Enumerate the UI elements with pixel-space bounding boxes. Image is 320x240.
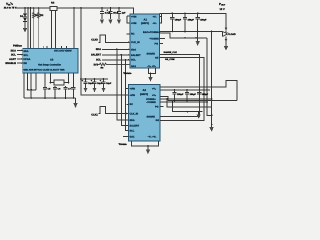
wire RC stub A1 bbox=[126, 33, 130, 35]
capacitor C5 bbox=[43, 73, 51, 98]
wire sense stair C bbox=[167, 99, 212, 107]
op-amp A3 hot swap controller block bbox=[23, 48, 78, 73]
svg-text:EN: EN bbox=[23, 62, 27, 65]
svg-text:Hot Swap Controller: Hot Swap Controller bbox=[38, 63, 61, 66]
capacitor C3 bbox=[117, 8, 126, 19]
node dot A2 vosns- join bbox=[206, 101, 208, 103]
capacitor C10 polarized bbox=[91, 78, 103, 88]
ground drop stair D bbox=[197, 112, 201, 119]
svg-text:SHARE: SHARE bbox=[147, 115, 156, 118]
resistor RS sense bbox=[50, 2, 57, 11]
wire source pin drop bbox=[30, 8, 32, 48]
ground drop return bus bbox=[196, 32, 200, 47]
svg-text:150μF: 150μF bbox=[175, 18, 182, 21]
svg-text:CLK0: CLK0 bbox=[91, 38, 98, 41]
capacitor COUT6 bbox=[197, 90, 209, 101]
node SCL left bbox=[11, 54, 23, 57]
node dot SCL drop bbox=[125, 59, 127, 61]
wire SALERT bus to A1 bbox=[91, 54, 130, 57]
svg-text:150μF: 150μF bbox=[190, 93, 197, 96]
wire sense+ leg bbox=[51, 11, 53, 49]
capacitor COUT2 bbox=[183, 13, 195, 31]
svg-text:GS: GS bbox=[155, 56, 159, 59]
svg-text:GS_COM: GS_COM bbox=[165, 58, 175, 61]
svg-text:+VIN: +VIN bbox=[130, 94, 136, 97]
svg-text:−V₀ +V₀: −V₀ +V₀ bbox=[147, 65, 156, 68]
wire PG stub A1 bbox=[160, 43, 164, 45]
svg-text:A1: A1 bbox=[144, 19, 148, 22]
svg-text:+V₀: +V₀ bbox=[152, 94, 156, 97]
svg-text:HPGA: HPGA bbox=[23, 58, 30, 61]
wire tie bottom stubs bbox=[28, 89, 36, 91]
svg-text:150μF: 150μF bbox=[202, 93, 209, 96]
capacitor C6 bbox=[53, 86, 61, 98]
op-amp A1 regulator block bbox=[130, 14, 161, 68]
capacitor C8 bbox=[71, 73, 75, 98]
svg-text:RS: RS bbox=[51, 2, 55, 5]
node dots on input rail bbox=[24, 7, 120, 9]
wire return bus from A1 bbox=[160, 31, 162, 33]
svg-text:SALERT: SALERT bbox=[131, 54, 141, 57]
svg-text:SCL: SCL bbox=[96, 59, 101, 62]
ground below A2 bbox=[146, 150, 150, 155]
svg-text:CLK_IN: CLK_IN bbox=[131, 41, 140, 44]
capacitor COUT5 bbox=[185, 90, 197, 101]
svg-text:GA1: GA1 bbox=[131, 65, 137, 68]
svg-text:+VIN: +VIN bbox=[131, 22, 137, 25]
load arrow bbox=[222, 28, 236, 37]
ground below load bbox=[224, 46, 228, 51]
wire sense vertical 2 bbox=[207, 38, 212, 115]
node dot sense 1 top bbox=[211, 31, 213, 33]
svg-text:SDA: SDA bbox=[23, 50, 28, 53]
svg-text:150μF: 150μF bbox=[177, 93, 184, 96]
wire vin branch to A2 bbox=[81, 8, 129, 95]
node CLK1 pulse source bbox=[91, 106, 128, 116]
svg-text:PMBus: PMBus bbox=[13, 44, 22, 47]
svg-text:10μF: 10μF bbox=[106, 82, 112, 85]
svg-text:OV1 OV2 VDDW: OV1 OV2 VDDW bbox=[54, 49, 72, 52]
wire SCL vertical to A2 bbox=[126, 60, 129, 131]
wire gate pin drop bbox=[73, 8, 75, 48]
capacitor C2 polarized bbox=[107, 8, 119, 19]
node dot A2 vin upper stub bbox=[124, 89, 128, 96]
capacitor C7 bbox=[63, 86, 71, 98]
node dot A2 gnd bbox=[147, 145, 149, 147]
wire vout rail bbox=[162, 13, 227, 27]
crystal Y1 timer box bbox=[50, 73, 70, 85]
svg-text:30.4 to 75 V: 30.4 to 75 V bbox=[4, 7, 17, 10]
node dots A2 return bus bbox=[174, 100, 201, 102]
wire RC stub A2 bbox=[126, 103, 128, 105]
wire A2 output rail bbox=[160, 81, 237, 101]
capacitor C11 polarized bbox=[100, 78, 112, 88]
wire load return bbox=[225, 37, 228, 46]
node CLK0 pulse source bbox=[91, 35, 130, 43]
wire SCL bus to A1 bbox=[96, 59, 130, 62]
wire intvcc rail bbox=[81, 78, 108, 80]
ground arrow at bus end bbox=[73, 98, 77, 108]
ground below C1 bbox=[100, 20, 104, 25]
wire ground bus below A3 bbox=[24, 97, 76, 99]
svg-text:GS: GS bbox=[156, 119, 160, 122]
wire A3 bottom stub 4 bbox=[35, 73, 37, 90]
wire R2 lower lead bbox=[38, 19, 40, 49]
wire A1 output to vout rail bbox=[160, 13, 162, 22]
wire A2 return stub bbox=[160, 97, 168, 101]
ground below C10 bbox=[92, 88, 96, 93]
wire into load node bbox=[225, 31, 227, 34]
node ENABLE bbox=[5, 62, 22, 65]
ground below C3 bbox=[117, 20, 121, 25]
ground below C2 bbox=[108, 20, 112, 25]
node dots vout rail bbox=[171, 13, 198, 15]
wire R1 lower lead bbox=[33, 19, 35, 49]
svg-text:+V₀: +V₀ bbox=[153, 16, 157, 19]
node ALERT bbox=[9, 58, 23, 61]
node dot SDA drop bbox=[116, 49, 118, 51]
ground below C11 bbox=[101, 88, 105, 93]
svg-text:1μF: 1μF bbox=[122, 12, 127, 15]
op-amp A2 regulator block bbox=[129, 85, 161, 142]
svg-text:+VIN: +VIN bbox=[130, 87, 136, 90]
svg-text:(GRP1): (GRP1) bbox=[141, 22, 149, 25]
wire vosns- from A1 bbox=[160, 38, 166, 40]
capacitor COUT1 bbox=[170, 13, 182, 31]
wire A3 bottom stub 1 bbox=[23, 73, 25, 98]
svg-text:SALERT: SALERT bbox=[91, 54, 101, 57]
wire SDA bus to A1 bbox=[96, 48, 130, 51]
resistor R1 bbox=[33, 8, 40, 19]
svg-text:Tristate: Tristate bbox=[119, 143, 128, 146]
svg-text:+V₀: +V₀ bbox=[153, 22, 157, 25]
svg-text:150μF: 150μF bbox=[188, 18, 195, 21]
capacitor C1 bbox=[100, 8, 111, 19]
svg-text:+VIN: +VIN bbox=[131, 16, 137, 19]
node dots sense bottom bbox=[187, 111, 213, 126]
svg-text:SCL: SCL bbox=[11, 54, 17, 57]
wire vosns+ from A1 bbox=[160, 33, 208, 38]
node dot A2 vosns+ join bbox=[211, 98, 213, 100]
ground below sense nest bbox=[209, 125, 213, 133]
node dots stair joins bbox=[166, 98, 173, 103]
svg-text:+V₀: +V₀ bbox=[152, 87, 156, 90]
svg-text:SHARE_CLK: SHARE_CLK bbox=[164, 51, 178, 54]
wire load bottom bbox=[221, 32, 223, 37]
wire A3 bottom stub 3 bbox=[30, 73, 32, 98]
svg-text:SCL: SCL bbox=[23, 54, 28, 57]
wire GA1 stub A2 bbox=[123, 136, 129, 138]
wire A3 spare top pin ticks bbox=[44, 46, 67, 49]
svg-text:RC: RC bbox=[131, 33, 135, 36]
svg-text:−VOSNS: −VOSNS bbox=[146, 101, 156, 104]
wire A1 bottom gnd stubs bbox=[149, 68, 156, 77]
svg-text:(GRP2): (GRP2) bbox=[140, 93, 148, 96]
resistor R2 bbox=[38, 8, 45, 19]
node dots return bus bbox=[171, 31, 198, 33]
svg-text:12 V: 12 V bbox=[220, 8, 225, 11]
svg-text:ALRT: ALRT bbox=[9, 58, 16, 61]
ground below A1 bbox=[148, 77, 152, 82]
svg-text:−V₀ +V₀: −V₀ +V₀ bbox=[148, 135, 157, 138]
node dot SALERT drop bbox=[120, 54, 122, 56]
wire vdd pin drop bbox=[27, 8, 29, 48]
wire A2 return bus bbox=[168, 100, 237, 102]
ground below C9 bbox=[83, 88, 87, 93]
wire sense vertical 1 bbox=[211, 32, 213, 125]
svg-text:GA1: GA1 bbox=[130, 136, 136, 139]
svg-text:SDA: SDA bbox=[130, 119, 135, 122]
svg-text:Tristate: Tristate bbox=[123, 72, 132, 75]
diode D1 dual TVS bbox=[20, 8, 27, 21]
wire A2 bottom gnd stubs bbox=[132, 141, 159, 150]
svg-text:CLK_IN: CLK_IN bbox=[130, 112, 139, 115]
wire SDA vertical to A2 bbox=[117, 49, 129, 120]
wire share_clk chain bbox=[160, 54, 200, 116]
wire input rail bbox=[16, 8, 134, 14]
wire A3 bottom stub 2 bbox=[27, 73, 29, 90]
wire A1 vin left stubs bbox=[127, 16, 130, 23]
svg-text:SDA: SDA bbox=[131, 48, 136, 51]
node dot A1 gnd bbox=[150, 73, 152, 75]
wire return bus top bbox=[162, 31, 223, 33]
svg-text:LOAD: LOAD bbox=[229, 33, 236, 36]
svg-text:−VOSNS: −VOSNS bbox=[149, 37, 159, 40]
ground below D1 bbox=[23, 21, 27, 32]
node dot intvcc rail bbox=[80, 78, 82, 80]
svg-text:PG: PG bbox=[155, 43, 159, 46]
svg-text:SHARE: SHARE bbox=[147, 52, 156, 55]
wire sense stair D bbox=[173, 102, 203, 112]
capacitor C9 polarized bbox=[82, 78, 94, 88]
node dots on ground bus bbox=[30, 97, 74, 99]
svg-text:SDA: SDA bbox=[96, 48, 101, 51]
svg-text:SDA: SDA bbox=[11, 49, 17, 52]
wire SALERT vertical to A2 bbox=[121, 55, 128, 126]
wire gs chain bbox=[160, 58, 205, 121]
svg-text:150μF: 150μF bbox=[200, 18, 207, 21]
svg-text:A2: A2 bbox=[143, 89, 147, 92]
svg-text:PG: PG bbox=[155, 105, 159, 108]
svg-text:SALERT: SALERT bbox=[130, 125, 140, 128]
node dots A2 output rail bbox=[174, 89, 201, 91]
wire PG stub A2 bbox=[160, 106, 164, 108]
svg-text:SCL: SCL bbox=[131, 59, 136, 62]
capacitor COUT4 bbox=[172, 90, 184, 101]
svg-text:EAO+/VOSNS+: EAO+/VOSNS+ bbox=[143, 31, 161, 34]
wire A2 vosns- bbox=[160, 101, 207, 103]
capacitor COUT3 bbox=[196, 13, 208, 31]
wire sense- leg bbox=[55, 11, 57, 49]
node dots vosns line bbox=[184, 37, 197, 39]
svg-text:ENABLE: ENABLE bbox=[5, 62, 16, 65]
svg-text:A3: A3 bbox=[50, 58, 54, 61]
wire A2 vosns+ bbox=[160, 98, 212, 100]
resistor R6 on 3V3 line bbox=[94, 63, 130, 70]
node SDA left bbox=[11, 49, 23, 52]
svg-text:CLK1: CLK1 bbox=[91, 114, 98, 117]
svg-text:RC: RC bbox=[130, 103, 134, 106]
svg-text:SCL: SCL bbox=[130, 129, 135, 132]
svg-text:GND ADR INTVCC CLKIN CLKOU: GND ADR INTVCC CLKIN CLKOUT TMR bbox=[23, 69, 65, 72]
node junctions on tie bbox=[27, 89, 32, 91]
